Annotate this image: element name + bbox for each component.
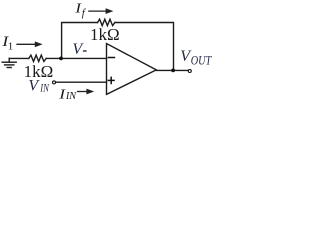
svg-text:OUT: OUT: [191, 53, 212, 67]
svg-text:1: 1: [8, 40, 14, 52]
svg-text:IN: IN: [39, 82, 49, 95]
svg-text:I: I: [58, 87, 66, 102]
svg-text:IN: IN: [65, 91, 77, 102]
svg-text:1kΩ: 1kΩ: [90, 25, 120, 44]
